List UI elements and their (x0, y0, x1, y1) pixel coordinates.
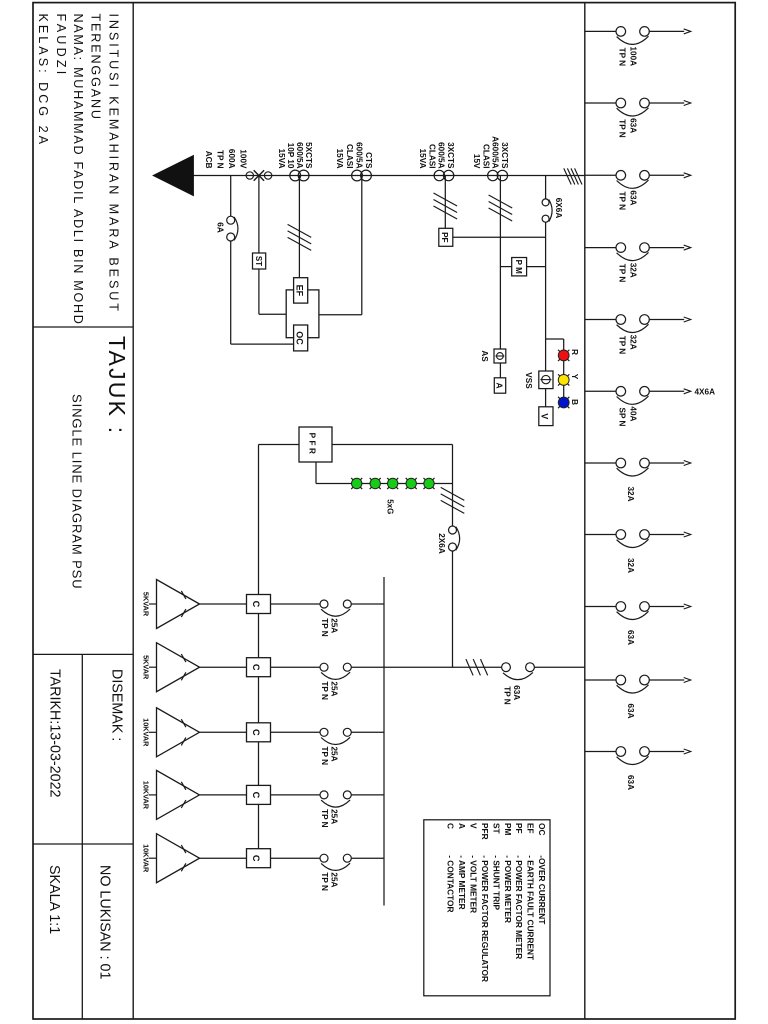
svg-text:-OVER CURRENT: -OVER CURRENT (537, 855, 547, 924)
svg-text:6X6A: 6X6A (554, 198, 563, 219)
svg-text:63A: 63A (629, 118, 638, 133)
svg-text:ST: ST (491, 823, 501, 834)
svg-text:25A: 25A (330, 872, 339, 887)
svg-text:5KVAR: 5KVAR (142, 655, 151, 680)
svg-text:15VA: 15VA (277, 149, 286, 169)
svg-text:- AMP METER: - AMP METER (457, 855, 467, 909)
svg-text:OC: OC (537, 823, 547, 835)
svg-text:32A: 32A (626, 558, 635, 573)
svg-text:40A: 40A (629, 406, 638, 421)
svg-text:5XCTS: 5XCTS (304, 142, 313, 169)
svg-text:TP N: TP N (618, 264, 627, 283)
svg-text:- POWER METER: - POWER METER (503, 855, 513, 923)
svg-text:C: C (446, 823, 456, 829)
svg-text:EF: EF (526, 823, 536, 834)
svg-text:CLASI: CLASI (481, 144, 490, 169)
svg-text:B: B (570, 399, 580, 405)
svg-text:C: C (251, 601, 261, 608)
svg-text:5xG: 5xG (385, 499, 394, 514)
svg-text:TP N: TP N (618, 336, 627, 355)
svg-text:600/5A: 600/5A (295, 142, 304, 168)
svg-text:25A: 25A (330, 809, 339, 824)
svg-text:A: A (457, 823, 467, 829)
svg-text:AS: AS (480, 350, 489, 362)
svg-text:EF: EF (295, 285, 305, 297)
svg-text:KELAS: DCG 2A: KELAS: DCG 2A (36, 14, 50, 148)
svg-text:V: V (539, 413, 549, 419)
svg-text:V: V (468, 823, 478, 829)
svg-text:C: C (251, 855, 261, 862)
svg-text:32A: 32A (629, 335, 638, 350)
svg-text:CLASI: CLASI (345, 144, 354, 169)
svg-text:600/5A: 600/5A (354, 142, 363, 168)
svg-text:TP N: TP N (320, 809, 329, 828)
svg-text:25A: 25A (330, 681, 339, 696)
svg-text:OC: OC (295, 331, 305, 345)
svg-text:- POWER FACTOR METER: - POWER FACTOR METER (514, 855, 524, 959)
svg-text:A600/5A: A600/5A (491, 136, 500, 168)
svg-text:TERENGGANU: TERENGGANU (89, 14, 103, 121)
svg-text:INSITUSI KEMAHIRAN MARA BESUT: INSITUSI KEMAHIRAN MARA BESUT (106, 14, 120, 314)
svg-text:4X6A: 4X6A (695, 388, 716, 397)
svg-text:CLASI: CLASI (427, 144, 436, 169)
svg-text:PF: PF (514, 823, 524, 834)
svg-text:CTS: CTS (364, 152, 373, 169)
svg-text:VSS: VSS (524, 372, 533, 389)
svg-text:PF: PF (440, 232, 449, 242)
svg-text:PFR: PFR (480, 823, 490, 840)
svg-text:32A: 32A (626, 487, 635, 502)
svg-text:10KVAR: 10KVAR (142, 718, 151, 747)
svg-text:ACB: ACB (204, 151, 213, 169)
svg-text:10P 10: 10P 10 (286, 143, 295, 169)
svg-text:SINGLE LINE DIAGRAM PSU: SINGLE LINE DIAGRAM PSU (70, 394, 85, 590)
svg-text:TP N: TP N (618, 192, 627, 211)
svg-text:PM: PM (503, 823, 513, 836)
svg-text:SP N: SP N (618, 408, 627, 427)
svg-text:- SHUNT TRIP: - SHUNT TRIP (491, 855, 501, 910)
svg-text:TP N: TP N (216, 150, 225, 169)
svg-text:TP N: TP N (320, 618, 329, 637)
svg-text:2X6A: 2X6A (437, 533, 446, 554)
svg-text:NO LUKISAN : 01: NO LUKISAN : 01 (96, 865, 112, 979)
svg-text:TP N: TP N (320, 747, 329, 766)
svg-text:6A: 6A (215, 222, 224, 233)
svg-text:A: A (494, 382, 504, 388)
svg-text:63A: 63A (629, 190, 638, 205)
svg-text:TP N: TP N (618, 119, 627, 138)
svg-text:- EARTH FAULT CURRENT: - EARTH FAULT CURRENT (526, 855, 536, 960)
svg-text:5KVAR: 5KVAR (142, 592, 151, 617)
svg-text:PFR: PFR (308, 433, 317, 457)
svg-text:63A: 63A (626, 775, 635, 790)
svg-text:TP N: TP N (618, 48, 627, 67)
svg-text:C: C (251, 729, 261, 736)
svg-text:10KVAR: 10KVAR (142, 781, 151, 810)
svg-text:TAJUK :: TAJUK : (104, 336, 130, 435)
svg-text:C: C (251, 792, 261, 799)
svg-text:63A: 63A (626, 630, 635, 645)
svg-text:- CONTACTOR: - CONTACTOR (446, 855, 456, 912)
svg-text:- POWER FACTOR REGULATOR: - POWER FACTOR REGULATOR (480, 855, 490, 982)
svg-text:100A: 100A (629, 47, 638, 67)
svg-text:- VOLT METER: - VOLT METER (468, 855, 478, 913)
svg-text:NAMA: MUHAMMAD FADIL ADLI BIN: NAMA: MUHAMMAD FADIL ADLI BIN MOHD (71, 14, 85, 326)
svg-text:C: C (251, 664, 261, 671)
svg-text:ST: ST (254, 256, 263, 266)
svg-text:63A: 63A (626, 704, 635, 719)
svg-text:FAUDZI: FAUDZI (54, 14, 68, 78)
svg-text:25A: 25A (330, 747, 339, 762)
svg-text:100V: 100V (239, 149, 248, 169)
svg-text:TARIKH:13-03-2022: TARIKH:13-03-2022 (46, 669, 62, 798)
svg-text:3XCTS: 3XCTS (500, 142, 509, 169)
svg-text:SKALA 1:1: SKALA 1:1 (46, 865, 62, 934)
svg-text:TP N: TP N (320, 681, 329, 700)
svg-text:15V: 15V (472, 154, 481, 169)
svg-text:3XCTS: 3XCTS (446, 142, 455, 169)
svg-text:600A: 600A (227, 149, 236, 169)
svg-text:P M: P M (514, 260, 523, 274)
svg-text:Y: Y (570, 374, 580, 380)
svg-text:63A: 63A (512, 685, 521, 700)
svg-text:TP N: TP N (503, 686, 512, 705)
svg-text:25A: 25A (330, 618, 339, 633)
svg-text:R: R (570, 349, 580, 355)
svg-text:DISEMAK :: DISEMAK : (109, 669, 125, 741)
svg-text:10KVAR: 10KVAR (142, 844, 151, 873)
svg-text:600/5A: 600/5A (437, 142, 446, 168)
svg-text:15VA: 15VA (418, 149, 427, 169)
svg-text:15VA: 15VA (335, 149, 344, 169)
svg-text:32A: 32A (629, 263, 638, 278)
svg-text:TP N: TP N (320, 872, 329, 891)
